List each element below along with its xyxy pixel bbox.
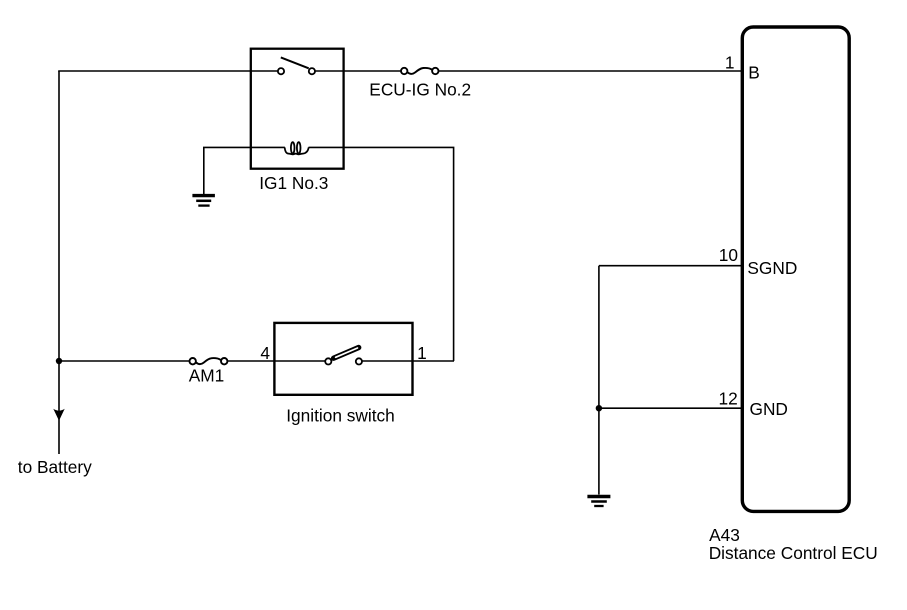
svg-text:1: 1 <box>725 53 735 73</box>
wire: battery node to fuse AM1 <box>59 360 190 362</box>
svg-text:Distance Control ECU: Distance Control ECU <box>709 543 878 563</box>
wire: GND horizontal <box>599 407 742 409</box>
ground symbol (ECU) <box>587 497 610 507</box>
svg-text:GND: GND <box>750 399 788 419</box>
wire: top rail from left vertical to relay box <box>58 70 251 72</box>
svg-text:SGND: SGND <box>747 258 797 278</box>
relay switch blade <box>281 57 309 68</box>
wire: SGND horizontal <box>599 265 742 267</box>
svg-text:IG1 No.3: IG1 No.3 <box>259 173 328 193</box>
node: battery junction <box>56 358 62 364</box>
relay IG1 No.3 box <box>251 49 344 169</box>
svg-text:10: 10 <box>719 245 738 265</box>
svg-text:B: B <box>748 63 760 83</box>
ignition switch contact right <box>356 358 413 364</box>
svg-text:12: 12 <box>718 389 737 409</box>
ground symbol (relay coil) <box>192 196 215 206</box>
relay switch contact right <box>309 68 344 74</box>
node: GND junction <box>596 405 602 411</box>
relay switch contact left <box>251 68 284 74</box>
svg-text:Ignition switch: Ignition switch <box>286 405 395 425</box>
ECU A43 box <box>742 27 849 511</box>
wire: fuse ECU-IG No.2 to ECU pin B <box>439 70 743 72</box>
wire: left vertical from battery node up to top rail <box>58 71 60 454</box>
ignition switch box <box>274 323 412 395</box>
wire: relay coil right to vertical riser <box>309 147 454 361</box>
wire: relay coil to ground (left) <box>204 147 285 194</box>
svg-text:A43: A43 <box>709 525 740 545</box>
ignition switch blade <box>334 348 359 359</box>
wire: SGND/GND vertical <box>598 266 600 495</box>
fuse ECU-IG No.2 <box>401 68 438 74</box>
svg-text:4: 4 <box>260 343 270 363</box>
relay coil L <box>285 142 309 154</box>
svg-text:ECU-IG No.2: ECU-IG No.2 <box>369 79 471 99</box>
wire: fuse AM1 to ignition switch <box>227 360 274 362</box>
svg-text:to Battery: to Battery <box>18 457 92 477</box>
wire: relay box to fuse ECU-IG No.2 <box>344 70 401 72</box>
fuse AM1 <box>190 358 228 364</box>
svg-text:AM1: AM1 <box>189 366 225 386</box>
ignition switch contact left <box>274 358 331 364</box>
arrow to battery <box>53 409 64 421</box>
wire: ignition switch pin 1 to riser <box>413 360 455 362</box>
